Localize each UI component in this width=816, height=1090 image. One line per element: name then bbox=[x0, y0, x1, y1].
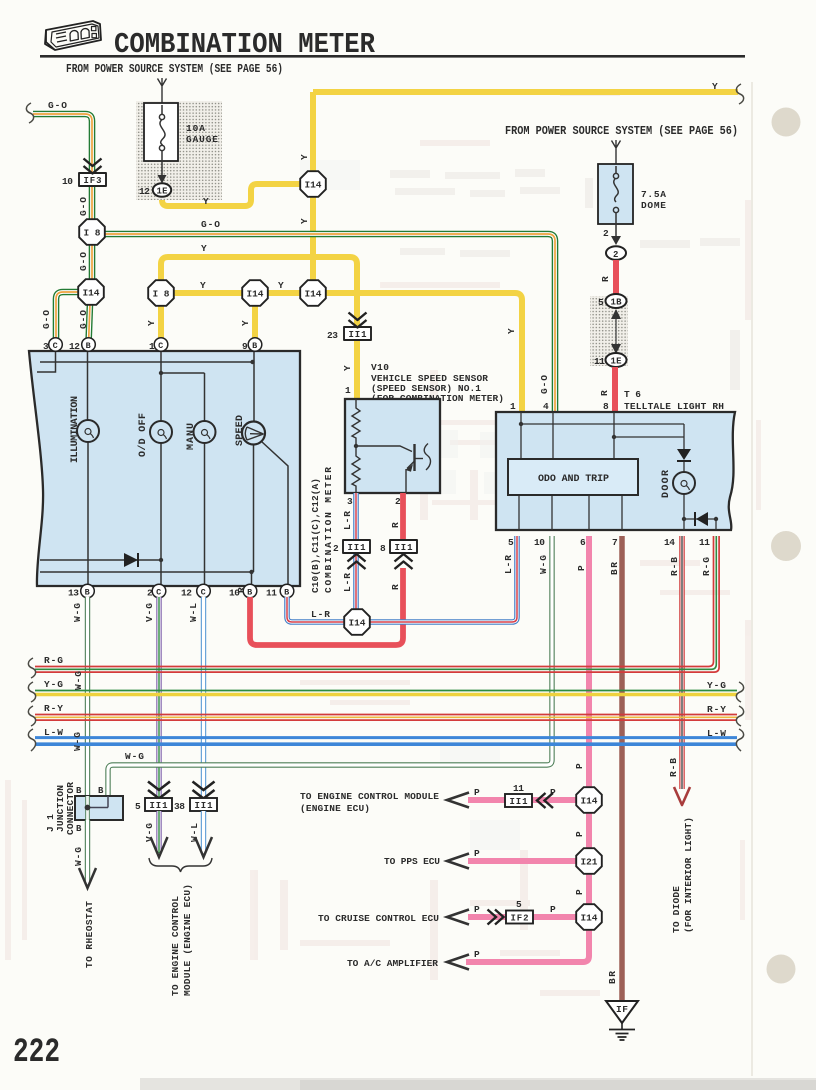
svg-text:B: B bbox=[284, 588, 289, 598]
svg-text:TO ENGINE CONTROL MODULE: TO ENGINE CONTROL MODULE bbox=[300, 791, 439, 802]
svg-text:Y-G: Y-G bbox=[707, 680, 726, 691]
svg-text:B: B bbox=[252, 341, 257, 351]
svg-text:11: 11 bbox=[266, 588, 277, 599]
svg-text:Y: Y bbox=[200, 280, 206, 291]
wire R-B T6 pin14 down to arrow bbox=[679, 536, 685, 789]
svg-text:I 8: I 8 bbox=[84, 228, 101, 239]
svg-text:Y: Y bbox=[203, 196, 209, 207]
chevrons down above 38-II1 bbox=[193, 782, 215, 799]
illumination branch bbox=[87, 351, 90, 586]
svg-text:Y: Y bbox=[146, 320, 157, 326]
junction link 1B to 1E with arrows bbox=[615, 310, 617, 352]
svg-text:L-W: L-W bbox=[707, 728, 726, 739]
svg-text:TO RHEOSTAT: TO RHEOSTAT bbox=[84, 901, 95, 968]
diode rail bbox=[40, 559, 161, 561]
label W-G below pin 13B bbox=[72, 603, 83, 622]
svg-text:IF2: IF2 bbox=[511, 914, 529, 924]
label G-O below IF3 bbox=[78, 197, 89, 216]
svg-text:ILLUMINATION: ILLUMINATION bbox=[70, 396, 81, 463]
wire L-R pin 11B to I14 bbox=[287, 597, 345, 622]
connector I8 (yellow row) bbox=[148, 280, 174, 306]
wire Y stub I14 to pin 9B bbox=[252, 293, 258, 344]
svg-text:38: 38 bbox=[174, 801, 185, 812]
wire V-G below box bbox=[156, 811, 161, 853]
svg-text:MODULE (ENGINE ECU): MODULE (ENGINE ECU) bbox=[182, 884, 193, 996]
odo box outputs bbox=[519, 495, 622, 530]
connector I14 (on G-O lower) bbox=[78, 279, 104, 305]
svg-text:1B: 1B bbox=[611, 298, 623, 308]
svg-text:I21: I21 bbox=[581, 857, 598, 868]
svg-text:L-R: L-R bbox=[311, 609, 330, 620]
svg-text:P: P bbox=[576, 565, 587, 571]
label Y at pin 9B stub bbox=[240, 320, 251, 326]
svg-text:B: B bbox=[85, 588, 90, 598]
emitter with arrow bbox=[407, 461, 415, 469]
svg-text:FROM POWER SOURCE SYSTEM (SEE: FROM POWER SOURCE SYSTEM (SEE PAGE 56) bbox=[66, 63, 283, 76]
svg-text:TO DIODE: TO DIODE bbox=[671, 886, 682, 933]
arrow into connector 2 bbox=[611, 236, 621, 245]
svg-text:1: 1 bbox=[149, 341, 155, 352]
rotated label ILLUMINATION bbox=[70, 396, 81, 463]
svg-text:W-G: W-G bbox=[538, 555, 549, 574]
label R rotated bbox=[600, 276, 611, 282]
svg-text:4: 4 bbox=[543, 401, 549, 412]
chevrons up below 8-II1 bbox=[395, 554, 413, 569]
svg-text:W-G: W-G bbox=[125, 751, 144, 762]
svg-text:II1: II1 bbox=[349, 330, 368, 340]
label Y on T6 pin1 riser bbox=[506, 328, 517, 334]
wire R 1E to T6 pin 8 bbox=[612, 367, 618, 412]
svg-text:C10(B),C11(C),C12(A): C10(B),C11(C),C12(A) bbox=[310, 478, 321, 593]
fuse 7.5A DOME box bbox=[598, 164, 633, 224]
wire R-G bus from left to T6 pin 11 bbox=[35, 536, 719, 672]
feathered source arrow above fuse 10A bbox=[158, 78, 167, 103]
svg-text:2: 2 bbox=[603, 228, 609, 239]
svg-text:R-Y: R-Y bbox=[707, 704, 726, 715]
svg-text:IF: IF bbox=[616, 1004, 628, 1015]
label Y at pin 1C stub bbox=[146, 320, 157, 326]
label W-L below pin 12C bbox=[188, 603, 199, 622]
connector I14 (pink trunk, engine) bbox=[576, 787, 602, 813]
junction dot at resistor/base bbox=[354, 444, 358, 448]
svg-text:P: P bbox=[574, 889, 585, 895]
svg-text:MANU: MANU bbox=[186, 423, 197, 450]
punch hole bottom bbox=[767, 955, 796, 984]
label G-O at pin 12B branch bbox=[78, 310, 89, 329]
pin 8 rail bbox=[614, 412, 684, 459]
svg-text:2: 2 bbox=[147, 588, 153, 599]
svg-text:(FOR INTERIOR LIGHT): (FOR INTERIOR LIGHT) bbox=[683, 817, 694, 933]
wire L-W bus bbox=[35, 738, 737, 745]
svg-text:II1: II1 bbox=[150, 801, 169, 811]
svg-text:5: 5 bbox=[508, 537, 514, 548]
svg-text:P: P bbox=[574, 763, 585, 769]
svg-text:1: 1 bbox=[345, 385, 351, 396]
wire Y vertical through I14 to I14 row bbox=[310, 92, 316, 293]
label W-G above J1 bbox=[72, 732, 83, 751]
svg-text:B: B bbox=[86, 341, 91, 351]
wire G-O branch to pin 3C bbox=[56, 292, 79, 344]
svg-text:L-R: L-R bbox=[342, 573, 353, 592]
svg-text:I14: I14 bbox=[83, 288, 100, 299]
svg-text:G-O: G-O bbox=[78, 310, 89, 329]
label Y rotated above V10 bbox=[342, 365, 353, 371]
svg-text:2: 2 bbox=[333, 543, 339, 554]
svg-text:IF3: IF3 bbox=[84, 176, 102, 186]
label R-B rotated below T6 pin14 bbox=[669, 557, 680, 576]
svg-text:Y: Y bbox=[240, 320, 251, 326]
svg-text:DOOR: DOOR bbox=[661, 470, 672, 498]
label P rotated below T6 pin6 bbox=[576, 565, 587, 571]
svg-text:11: 11 bbox=[699, 537, 710, 548]
label R-G rotated below T6 pin11 bbox=[701, 557, 712, 576]
label G-O at pin 3C branch bbox=[41, 310, 52, 329]
internal top rail bbox=[40, 361, 253, 363]
pin 4 rail bbox=[552, 412, 554, 459]
wire P branch cruise ecu bbox=[468, 914, 577, 920]
bottom scan band bbox=[140, 1078, 816, 1090]
svg-text:T 6: T 6 bbox=[624, 389, 641, 400]
svg-text:G-O: G-O bbox=[539, 375, 550, 394]
svg-text:P: P bbox=[474, 904, 480, 915]
pin 3C step wire bbox=[37, 351, 56, 372]
svg-text:B: B bbox=[76, 824, 82, 834]
chevrons left after II1 bbox=[537, 793, 553, 808]
diode D2 (down) bbox=[677, 449, 691, 460]
svg-text:V10: V10 bbox=[371, 362, 389, 373]
svg-text:W-G: W-G bbox=[72, 732, 83, 751]
wire W-G T6 pin10 down and left to J1 bbox=[108, 536, 552, 797]
svg-text:W-G: W-G bbox=[73, 847, 84, 866]
wire G-O horizontal from I8 to T6 pin 4 bbox=[105, 234, 555, 412]
label R-B rotated bbox=[668, 758, 679, 777]
svg-text:V-G: V-G bbox=[144, 603, 155, 622]
label G-O below I8 bbox=[78, 252, 89, 271]
bottom pin circles bbox=[68, 584, 294, 598]
svg-text:P: P bbox=[574, 831, 585, 837]
halftone patch between 1B and 1E bbox=[590, 296, 628, 366]
label G-O rotated above pin 4 bbox=[539, 375, 550, 394]
wire Y from 1E fuse to I14 bbox=[162, 184, 302, 206]
svg-text:B: B bbox=[98, 786, 104, 796]
svg-text:G-O: G-O bbox=[41, 310, 52, 329]
T6 telltale light box (torn right edge) bbox=[496, 412, 735, 530]
svg-text:BR: BR bbox=[607, 971, 618, 984]
svg-text:Y: Y bbox=[712, 81, 718, 92]
svg-text:P: P bbox=[550, 904, 556, 915]
svg-text:I 8: I 8 bbox=[153, 289, 170, 300]
brace under engine ecu arrows bbox=[149, 858, 212, 872]
label R rotated bbox=[599, 390, 610, 396]
svg-text:10: 10 bbox=[62, 176, 73, 187]
door lamp branch bbox=[683, 424, 685, 530]
svg-text:B: B bbox=[247, 588, 252, 598]
svg-text:8: 8 bbox=[603, 401, 609, 412]
connector 5 (1B) bbox=[606, 294, 627, 308]
wire W-L pin 12C down to II1 bbox=[201, 597, 206, 797]
wire Y octagon row horizontal to T6 pin 1 bbox=[161, 293, 522, 412]
left end curls bbox=[28, 658, 35, 751]
wire R-Y bus bbox=[35, 715, 737, 721]
svg-text:2: 2 bbox=[613, 250, 618, 260]
svg-text:L-W: L-W bbox=[44, 727, 63, 738]
label W-G rotated at T6 pin10 riser bbox=[538, 555, 549, 574]
connector 11 (1E) bbox=[606, 353, 627, 367]
svg-text:V-G: V-G bbox=[144, 823, 155, 842]
svg-text:Y: Y bbox=[299, 218, 310, 224]
svg-text:W-L: W-L bbox=[189, 823, 200, 842]
svg-text:R: R bbox=[390, 522, 401, 528]
fuse element 7.5A bbox=[613, 166, 618, 236]
wire W-G J1 to rheostat arrow bbox=[85, 820, 90, 884]
connector I21 (pink trunk, pps) bbox=[576, 848, 602, 874]
svg-text:C: C bbox=[53, 341, 58, 351]
svg-text:5: 5 bbox=[516, 899, 522, 910]
o/d off branch bbox=[160, 351, 162, 586]
svg-text:W-G: W-G bbox=[72, 603, 83, 622]
svg-text:9: 9 bbox=[242, 341, 248, 352]
bottom rail to pin 10B bbox=[40, 572, 252, 586]
label R below 8-II1 bbox=[390, 584, 401, 590]
svg-text:G-O: G-O bbox=[78, 252, 89, 271]
svg-text:7.5A: 7.5A bbox=[641, 189, 666, 200]
arrowhead down to rheostat bbox=[79, 868, 96, 888]
chevrons down above 5-II1 bbox=[148, 782, 170, 799]
svg-text:10: 10 bbox=[534, 537, 545, 548]
svg-text:Y: Y bbox=[299, 154, 310, 160]
label V-G below pin 2C bbox=[144, 603, 155, 622]
label P rotated on trunk bbox=[574, 763, 585, 769]
wire G-O branch to pin 12B bbox=[89, 303, 91, 344]
svg-text:II1: II1 bbox=[395, 543, 414, 553]
connector box 23 II1 on yellow bbox=[344, 327, 371, 340]
svg-text:TO ENGINE CONTROL: TO ENGINE CONTROL bbox=[170, 896, 181, 996]
svg-text:L-R: L-R bbox=[342, 511, 353, 530]
connector 12 (1E) bbox=[153, 183, 171, 197]
svg-text:O/D OFF: O/D OFF bbox=[137, 413, 149, 457]
svg-text:I14: I14 bbox=[581, 796, 598, 807]
wire Y end curl right bbox=[736, 84, 743, 104]
svg-text:R-B: R-B bbox=[668, 758, 679, 777]
svg-text:5: 5 bbox=[598, 297, 604, 308]
connector ellipse 2 bbox=[606, 246, 626, 260]
svg-text:7: 7 bbox=[612, 537, 618, 548]
svg-text:TELLTALE LIGHT RH: TELLTALE LIGHT RH bbox=[624, 401, 724, 412]
svg-text:II1: II1 bbox=[195, 801, 214, 811]
label L-R rotated at T6 pin5 riser bbox=[503, 555, 514, 574]
svg-text:1E: 1E bbox=[157, 187, 169, 197]
arrow into connector 12-1E bbox=[158, 175, 167, 184]
label BR rotated below T6 pin7 bbox=[609, 562, 620, 575]
halftone patch around 10A GAUGE fuse bbox=[136, 101, 222, 200]
svg-text:Y-G: Y-G bbox=[44, 679, 63, 690]
rotated connector id text C10B C11C C12A bbox=[310, 478, 321, 593]
svg-text:P: P bbox=[474, 787, 480, 798]
svg-text:II1: II1 bbox=[510, 797, 529, 807]
svg-text:TO A/C AMPLIFIER: TO A/C AMPLIFIER bbox=[347, 958, 438, 969]
chevrons down above IF3 bbox=[84, 159, 102, 174]
junction dots bbox=[250, 360, 254, 364]
svg-text:(ENGINE ECU): (ENGINE ECU) bbox=[300, 803, 370, 814]
svg-text:I14: I14 bbox=[305, 180, 322, 191]
wire Y top horizontal to right edge bbox=[313, 89, 738, 95]
svg-text:L-R: L-R bbox=[503, 555, 514, 574]
svg-text:12: 12 bbox=[181, 588, 192, 599]
ground IF triangle bbox=[606, 1001, 638, 1023]
label Y on riser above I14 bbox=[299, 154, 310, 160]
wire L-R V10 pin3 down to I14 bbox=[353, 493, 359, 610]
pin 1 rail bbox=[521, 412, 684, 459]
label R above 8-II1 bbox=[390, 522, 401, 528]
title underline bbox=[40, 55, 745, 58]
svg-text:G-O: G-O bbox=[48, 100, 67, 111]
wire G-O from left squiggle down through IF3, I8, I14 bbox=[33, 114, 92, 292]
wire Y-G bus bbox=[35, 691, 737, 695]
svg-text:II1: II1 bbox=[348, 543, 367, 553]
svg-text:I14: I14 bbox=[581, 913, 598, 924]
rotated label COMBINATION METER bbox=[323, 467, 334, 593]
svg-text:12: 12 bbox=[139, 186, 150, 197]
rotated label DOOR bbox=[661, 470, 672, 498]
svg-text:W-L: W-L bbox=[188, 603, 199, 622]
label R below pin 10B bbox=[236, 587, 247, 593]
svg-text:5: 5 bbox=[135, 801, 141, 812]
svg-text:Y: Y bbox=[201, 243, 207, 254]
svg-text:I14: I14 bbox=[305, 289, 322, 300]
right end curls bbox=[736, 682, 743, 751]
svg-text:R: R bbox=[599, 390, 610, 396]
resistor R-upper bbox=[352, 399, 360, 446]
svg-text:B: B bbox=[76, 786, 82, 796]
label L-R below 2-II1 bbox=[342, 573, 353, 592]
rotated destination TO RHEOSTAT bbox=[84, 901, 95, 968]
page edge shading bbox=[751, 82, 753, 1076]
rotated destination TO ENGINE CONTROL MODULE (ENGINE ECU) bbox=[170, 896, 181, 996]
connector box 5 II1 bbox=[145, 798, 172, 811]
connector I14 (yellow row middle) bbox=[242, 280, 268, 306]
svg-text:SPEED: SPEED bbox=[235, 415, 246, 446]
wire L-R I14 to T6 pin 5 bbox=[369, 536, 517, 622]
junction dots bbox=[519, 422, 523, 426]
feathered source arrow above fuse 7.5A bbox=[612, 140, 621, 164]
svg-text:P: P bbox=[474, 949, 480, 960]
transistor Q1 base wire bbox=[356, 446, 412, 452]
svg-text:222: 222 bbox=[13, 1034, 60, 1072]
svg-text:DOME: DOME bbox=[641, 200, 666, 211]
bulb MANU bbox=[194, 421, 216, 443]
wire P branch pps ecu bbox=[468, 858, 577, 864]
wire R pin 10B to 8-II1 bbox=[250, 493, 403, 645]
svg-text:3: 3 bbox=[347, 496, 353, 507]
top pin circles bbox=[43, 338, 262, 352]
connector box 38 II1 bbox=[190, 798, 217, 811]
svg-text:R: R bbox=[236, 587, 247, 593]
svg-text:1: 1 bbox=[510, 401, 516, 412]
svg-text:12: 12 bbox=[69, 341, 80, 352]
chevrons up below 2-II1 bbox=[348, 554, 366, 569]
speed branch bbox=[253, 351, 256, 572]
svg-text:Y: Y bbox=[342, 365, 353, 371]
wire G-O end curl left bbox=[26, 103, 33, 123]
svg-text:14: 14 bbox=[664, 537, 675, 548]
label Y on riser below I14 bbox=[299, 218, 310, 224]
svg-text:11: 11 bbox=[513, 783, 524, 794]
wire P trunk T6 pin6 down to A/C amplifier bbox=[466, 536, 589, 962]
bottom rail to pin 11 bbox=[684, 519, 716, 530]
svg-text:R-B: R-B bbox=[669, 557, 680, 576]
svg-text:R: R bbox=[390, 584, 401, 590]
bulb ILLUMINATION bbox=[77, 420, 99, 442]
chevrons right before IF2 bbox=[488, 910, 504, 925]
punch hole middle bbox=[771, 531, 801, 561]
wire Y stub I8 to pin 1C bbox=[158, 293, 164, 344]
svg-text:C: C bbox=[158, 341, 163, 351]
connector box 10 IF3 on G-O bbox=[79, 173, 106, 186]
connector box 8 II1 bbox=[390, 540, 417, 553]
svg-text:I14: I14 bbox=[349, 618, 366, 629]
svg-text:W-G: W-G bbox=[73, 671, 84, 690]
combination meter icon bbox=[45, 21, 101, 50]
svg-text:BR: BR bbox=[609, 562, 620, 575]
V10 speed sensor box bbox=[345, 399, 440, 493]
svg-text:P: P bbox=[474, 848, 480, 859]
transistor Q1 bbox=[413, 444, 415, 471]
chevrons down above 23-II1 bbox=[349, 313, 367, 328]
svg-text:R-G: R-G bbox=[701, 557, 712, 576]
svg-text:G-O: G-O bbox=[201, 219, 220, 230]
svg-text:8: 8 bbox=[380, 543, 386, 554]
wire W-G pin 13B down to J1 bbox=[85, 597, 90, 797]
svg-text:GAUGE: GAUGE bbox=[186, 134, 218, 145]
svg-text:Y: Y bbox=[278, 280, 284, 291]
wire V-G pin 2C down to II1 bbox=[156, 597, 161, 797]
wire Y second horizontal bbox=[161, 257, 357, 399]
arrowhead R-B down bbox=[674, 787, 690, 805]
svg-text:11: 11 bbox=[594, 356, 605, 367]
combination meter box (torn left edge) bbox=[29, 351, 300, 586]
fuse element 10A bbox=[159, 105, 165, 176]
svg-text:TO PPS ECU: TO PPS ECU bbox=[384, 856, 440, 867]
rotated label O/D OFF bbox=[137, 413, 149, 457]
speed gauge bbox=[242, 422, 265, 445]
connector I14 (pink trunk, cruise) bbox=[576, 904, 602, 930]
wire P branch engine ecu bbox=[468, 797, 577, 803]
svg-text:I14: I14 bbox=[247, 289, 264, 300]
svg-text:C: C bbox=[156, 588, 161, 598]
label W-G rotated between buses bbox=[73, 671, 84, 690]
svg-text:COMBINATION METER: COMBINATION METER bbox=[323, 467, 334, 593]
svg-text:13: 13 bbox=[68, 588, 79, 599]
wire BR T6 pin7 down to IF ground bbox=[619, 536, 625, 1001]
svg-text:R-G: R-G bbox=[44, 655, 63, 666]
svg-text:C: C bbox=[201, 588, 206, 598]
svg-text:FROM POWER SOURCE SYSTEM (SEE: FROM POWER SOURCE SYSTEM (SEE PAGE 56) bbox=[505, 125, 738, 138]
svg-text:R-Y: R-Y bbox=[44, 703, 63, 714]
rotated label MANU bbox=[186, 423, 197, 450]
rotated destination TO DIODE (FOR INTERIOR LIGHT) bbox=[671, 886, 682, 933]
connector I14 (top, on yellow riser) bbox=[300, 171, 326, 197]
rotated label J1 JUNCTION CONNECTOR bbox=[45, 814, 56, 832]
resistor R-lower bbox=[352, 446, 360, 493]
label L-R above 2-II1 bbox=[342, 511, 353, 530]
manu branch bbox=[161, 373, 205, 586]
svg-text:23: 23 bbox=[327, 330, 338, 341]
svg-text:ODO AND TRIP: ODO AND TRIP bbox=[538, 474, 609, 485]
diode D1 bbox=[124, 553, 138, 567]
J1 junction connector box bbox=[75, 796, 123, 820]
svg-text:CONNECTOR: CONNECTOR bbox=[65, 782, 76, 835]
diode D3 (left) bbox=[696, 512, 708, 526]
